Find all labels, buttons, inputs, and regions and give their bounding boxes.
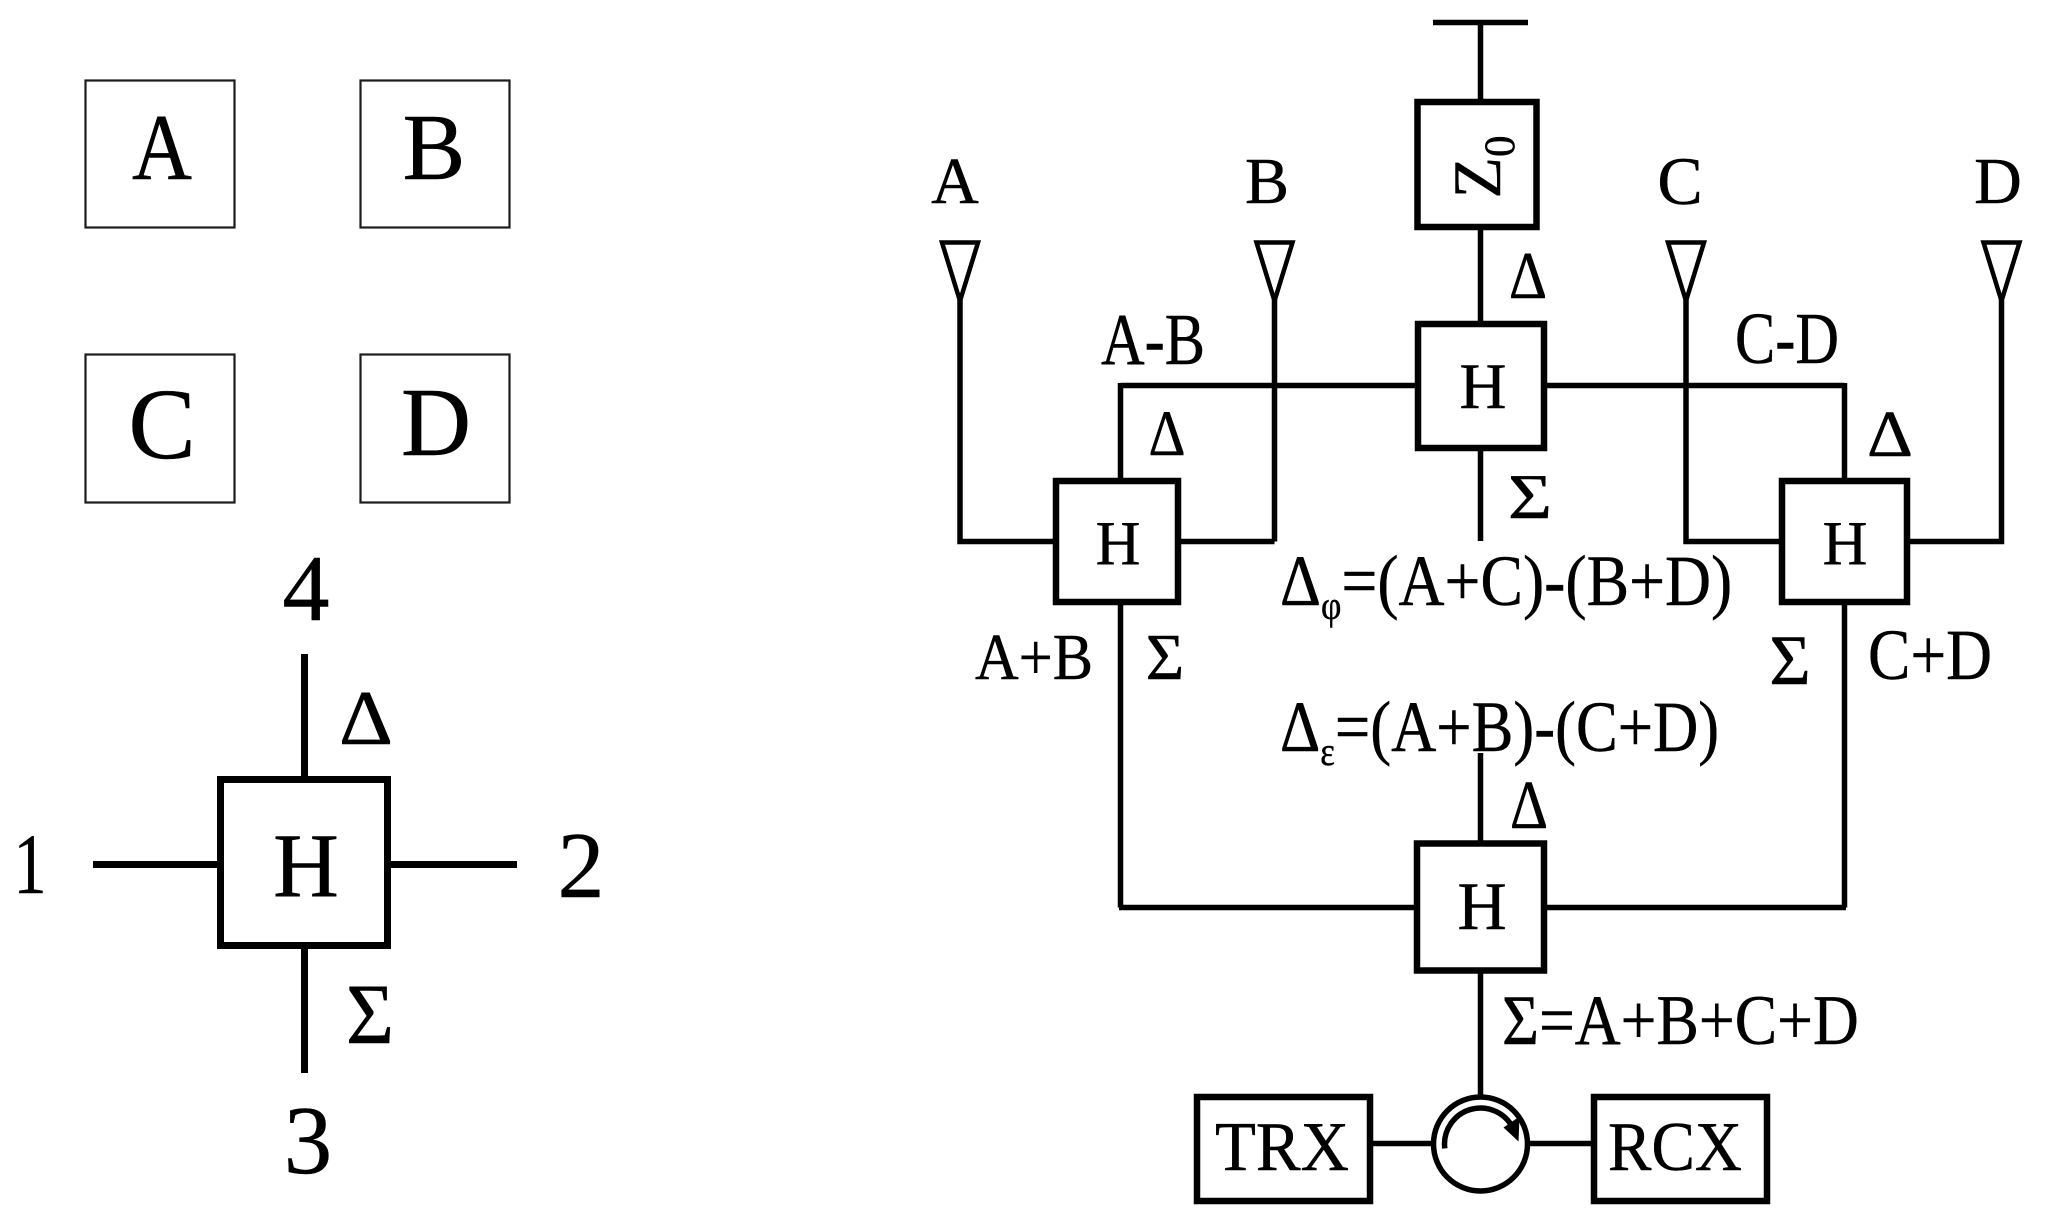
antenna D symbol xyxy=(1984,243,2020,302)
svg-text:C+D: C+D xyxy=(1868,615,1992,695)
svg-text:H: H xyxy=(1460,351,1507,423)
svg-text:Σ: Σ xyxy=(1146,621,1184,694)
svg-text:Σ: Σ xyxy=(346,966,394,1062)
patch antenna element B xyxy=(361,81,510,228)
svg-text:Δ: Δ xyxy=(1510,767,1548,843)
svg-text:1: 1 xyxy=(14,816,47,912)
svg-text:Σ=A+B+C+D: Σ=A+B+C+D xyxy=(1502,981,1859,1060)
wire antenna A to left hybrid xyxy=(960,300,1054,542)
central hybrid sigma wire xyxy=(1478,450,1484,541)
circulator xyxy=(1434,1097,1528,1191)
svg-text:Σ: Σ xyxy=(1508,461,1552,532)
svg-text:A: A xyxy=(132,96,192,200)
equation delta-phi xyxy=(1280,540,1732,628)
drop to bottom hybrid delta port xyxy=(1478,753,1484,842)
svg-text:Δε=(A+B)-(C+D): Δε=(A+B)-(C+D) xyxy=(1280,687,1719,775)
matched load Z0 xyxy=(1418,102,1537,227)
antenna C symbol xyxy=(1668,243,1704,302)
wire antenna C to right hybrid xyxy=(1686,300,1780,542)
svg-text:Σ: Σ xyxy=(1769,622,1810,700)
patch antenna element C xyxy=(86,355,235,503)
svg-text:C: C xyxy=(1657,143,1702,219)
right vertical wire C+D sigma to bottom bus xyxy=(1842,604,1848,908)
left vertical wire A+B sigma to bottom bus xyxy=(1118,604,1124,908)
svg-text:4: 4 xyxy=(283,537,330,641)
svg-text:C: C xyxy=(128,368,195,480)
antenna B symbol xyxy=(1257,243,1293,302)
port 1 wire xyxy=(93,861,220,868)
bottom bus right wire xyxy=(1546,905,1846,911)
svg-text:H: H xyxy=(1457,868,1506,944)
svg-text:3: 3 xyxy=(284,1087,333,1194)
wire terminator to Z0 xyxy=(1478,22,1484,102)
hybrid coupler symbol H xyxy=(221,780,388,946)
svg-text:C-D: C-D xyxy=(1735,298,1839,379)
wire Z0 to central hybrid delta port xyxy=(1478,230,1484,321)
sum output wire xyxy=(1478,972,1484,1096)
right hybrid coupler H (C,D) xyxy=(1782,481,1907,602)
svg-text:Δφ=(A+C)-(B+D): Δφ=(A+C)-(B+D) xyxy=(1280,540,1732,628)
bottom hybrid coupler H (elevation/sum) xyxy=(1417,844,1544,971)
port 2 wire xyxy=(391,861,517,868)
svg-text:B: B xyxy=(1245,145,1289,218)
TRX transmitter box xyxy=(1197,1097,1370,1201)
svg-text:A-B: A-B xyxy=(1101,299,1205,380)
left hybrid coupler H (A,B) xyxy=(1056,481,1178,602)
wire circulator to RCX xyxy=(1527,1141,1592,1147)
svg-text:D: D xyxy=(401,369,471,476)
svg-text:Δ: Δ xyxy=(1509,239,1547,313)
svg-text:D: D xyxy=(1974,145,2022,218)
wire TRX to circulator xyxy=(1373,1141,1434,1147)
antenna A symbol xyxy=(942,243,978,302)
drop to right hybrid delta port xyxy=(1842,383,1848,481)
RCX receiver box xyxy=(1594,1097,1767,1201)
svg-text:Δ: Δ xyxy=(339,675,393,761)
bottom bus left wire xyxy=(1119,905,1416,911)
svg-text:RCX: RCX xyxy=(1608,1109,1742,1186)
svg-text:H: H xyxy=(1823,510,1868,578)
patch antenna element D xyxy=(361,355,510,503)
port 4 wire xyxy=(301,654,308,779)
svg-text:Δ: Δ xyxy=(1867,398,1913,471)
svg-text:A+B: A+B xyxy=(975,621,1093,694)
svg-text:B: B xyxy=(403,96,466,200)
svg-text:TRX: TRX xyxy=(1215,1109,1349,1186)
equation delta-epsilon xyxy=(1280,687,1719,775)
wire antenna B down xyxy=(1272,300,1278,542)
svg-text:2: 2 xyxy=(558,814,605,918)
matched load terminator bar xyxy=(1433,20,1528,26)
svg-text:A: A xyxy=(931,145,979,218)
svg-text:Δ: Δ xyxy=(1149,398,1186,470)
svg-text:H: H xyxy=(273,815,339,916)
drop to left hybrid delta port xyxy=(1118,383,1124,481)
svg-text:H: H xyxy=(1096,510,1141,578)
wire antenna D to right hybrid xyxy=(1909,300,2002,542)
wire C-D bus from central hybrid xyxy=(1546,383,1845,389)
wire A-B bus to central hybrid xyxy=(1121,383,1417,389)
port 3 wire xyxy=(301,949,308,1073)
central hybrid coupler H (azimuth) xyxy=(1418,324,1544,448)
patch antenna element A xyxy=(86,81,235,228)
wire left hybrid right port to B xyxy=(1180,539,1275,545)
equation sigma sum xyxy=(1502,981,1859,1060)
